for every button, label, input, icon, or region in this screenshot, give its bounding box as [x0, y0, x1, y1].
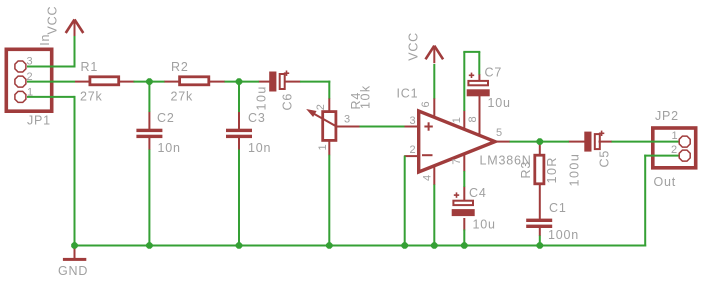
- svg-text:10n: 10n: [158, 141, 181, 155]
- svg-text:6: 6: [420, 101, 432, 108]
- svg-text:C7: C7: [485, 66, 503, 80]
- svg-text:2: 2: [315, 103, 327, 110]
- svg-text:8: 8: [467, 116, 479, 123]
- svg-text:2: 2: [410, 144, 417, 156]
- svg-text:C3: C3: [248, 111, 266, 125]
- svg-text:C6: C6: [281, 93, 295, 111]
- svg-text:5: 5: [496, 127, 503, 139]
- svg-text:10u: 10u: [473, 218, 496, 232]
- svg-text:1: 1: [27, 86, 34, 98]
- svg-text:C1: C1: [549, 201, 567, 215]
- svg-text:Out: Out: [654, 175, 677, 189]
- svg-text:C4: C4: [469, 186, 487, 200]
- svg-text:VCC: VCC: [46, 6, 60, 35]
- svg-text:GND: GND: [58, 264, 88, 278]
- svg-text:2: 2: [671, 144, 678, 156]
- svg-text:27k: 27k: [171, 90, 194, 104]
- svg-text:R1: R1: [81, 60, 99, 74]
- svg-text:3: 3: [27, 56, 34, 68]
- svg-text:10n: 10n: [248, 141, 271, 155]
- svg-text:3: 3: [344, 114, 351, 126]
- svg-text:100n: 100n: [548, 228, 579, 242]
- svg-text:1: 1: [672, 130, 679, 142]
- svg-text:JP1: JP1: [27, 114, 51, 128]
- svg-text:1: 1: [451, 116, 463, 123]
- svg-text:10k: 10k: [359, 84, 373, 109]
- svg-text:R2: R2: [171, 60, 189, 74]
- svg-text:10u: 10u: [488, 96, 511, 110]
- svg-text:27k: 27k: [80, 90, 103, 104]
- svg-text:10R: 10R: [545, 156, 559, 183]
- svg-text:C2: C2: [157, 111, 175, 125]
- svg-text:10u: 10u: [255, 85, 269, 110]
- svg-text:VCC: VCC: [407, 32, 421, 61]
- svg-text:4: 4: [422, 174, 434, 181]
- svg-text:R3: R3: [519, 161, 533, 179]
- svg-text:100u: 100u: [568, 153, 582, 187]
- svg-text:C5: C5: [598, 150, 612, 168]
- svg-text:JP2: JP2: [655, 109, 679, 123]
- svg-text:IC1: IC1: [397, 87, 419, 101]
- svg-text:1: 1: [317, 144, 329, 151]
- svg-text:2: 2: [27, 71, 34, 83]
- svg-text:3: 3: [410, 115, 417, 127]
- svg-text:7: 7: [451, 158, 463, 165]
- svg-text:In: In: [38, 34, 52, 46]
